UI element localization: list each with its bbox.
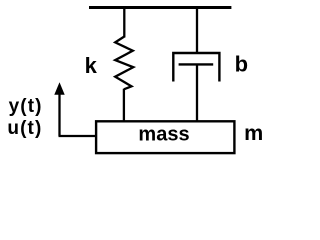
ceiling (fixed support) (89, 6, 231, 9)
svg-text:y(t): y(t) (9, 96, 43, 117)
damper b cylinder (173, 53, 219, 82)
arrowhead (54, 82, 64, 95)
wire spring top rod (123, 6, 125, 38)
arrow shaft (output y, input u) (58, 92, 60, 136)
svg-text:b: b (235, 52, 248, 77)
spring k (115, 37, 133, 90)
svg-text:m: m (244, 121, 263, 145)
wire spring bottom rod (123, 89, 125, 122)
svg-text:mass: mass (138, 123, 189, 145)
damper piston plate (179, 63, 214, 65)
svg-text:u(t): u(t) (7, 118, 42, 139)
wire damper bottom rod (196, 64, 198, 121)
svg-text:k: k (85, 53, 98, 78)
mass block (96, 121, 234, 153)
wire damper top rod (196, 6, 198, 53)
wire arrow base to mass (59, 135, 97, 137)
